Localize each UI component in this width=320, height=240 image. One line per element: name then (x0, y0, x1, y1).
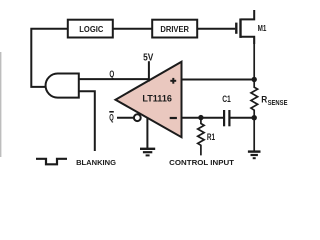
transistor M1 (N-MOSFET) (236, 10, 254, 44)
wire LOGIC left loop to AND output (31, 29, 68, 87)
node junction at Rsense bottom (252, 115, 257, 120)
resistor RSENSE (251, 37, 288, 151)
svg-text:Q: Q (109, 69, 114, 79)
svg-text:LOGIC: LOGIC (79, 24, 103, 34)
svg-text:CONTROL INPUT: CONTROL INPUT (169, 158, 234, 167)
op-amp U1 comparator LT1116 (left pointing) (116, 62, 182, 138)
ground (Rsense) (248, 152, 261, 159)
node Qbar label (109, 112, 114, 123)
svg-text:LT1116: LT1116 (142, 93, 172, 103)
wire + input to sense node (182, 79, 255, 81)
wire Qbar output (117, 117, 134, 119)
wire - input to C1 (182, 117, 225, 119)
wire AND top input / Q (79, 78, 149, 80)
logic block LOGIC (68, 20, 113, 38)
wire LOGIC to DRIVER (113, 28, 152, 30)
wire 5V supply (148, 61, 150, 81)
wire AND blanking input (79, 91, 95, 151)
plus input mark (170, 78, 176, 84)
ground (comparator) (140, 149, 155, 156)
scan artifact left edge (0, 52, 1, 157)
svg-text:BLANKING: BLANKING (76, 158, 116, 167)
svg-text:R: R (261, 94, 267, 105)
driver block DRIVER (152, 20, 197, 38)
svg-text:R1: R1 (207, 132, 215, 142)
capacitor C1 (224, 110, 254, 126)
wire DRIVER to M1 gate (197, 28, 235, 30)
AND gate (mirrored, output at left) (46, 73, 79, 97)
svg-text:Q: Q (109, 113, 114, 123)
blanking pulse waveform (36, 159, 67, 165)
svg-text:M1: M1 (258, 23, 267, 33)
svg-text:SENSE: SENSE (268, 100, 288, 107)
node junction R1 top (198, 115, 203, 120)
wire comparator ground lead (146, 118, 148, 149)
inversion bubble on Qbar (134, 114, 141, 121)
minus input mark (170, 117, 177, 119)
resistor R1 (198, 118, 215, 156)
svg-text:DRIVER: DRIVER (160, 24, 189, 34)
node junction at M1 source (252, 77, 257, 82)
svg-text:C1: C1 (222, 94, 231, 104)
